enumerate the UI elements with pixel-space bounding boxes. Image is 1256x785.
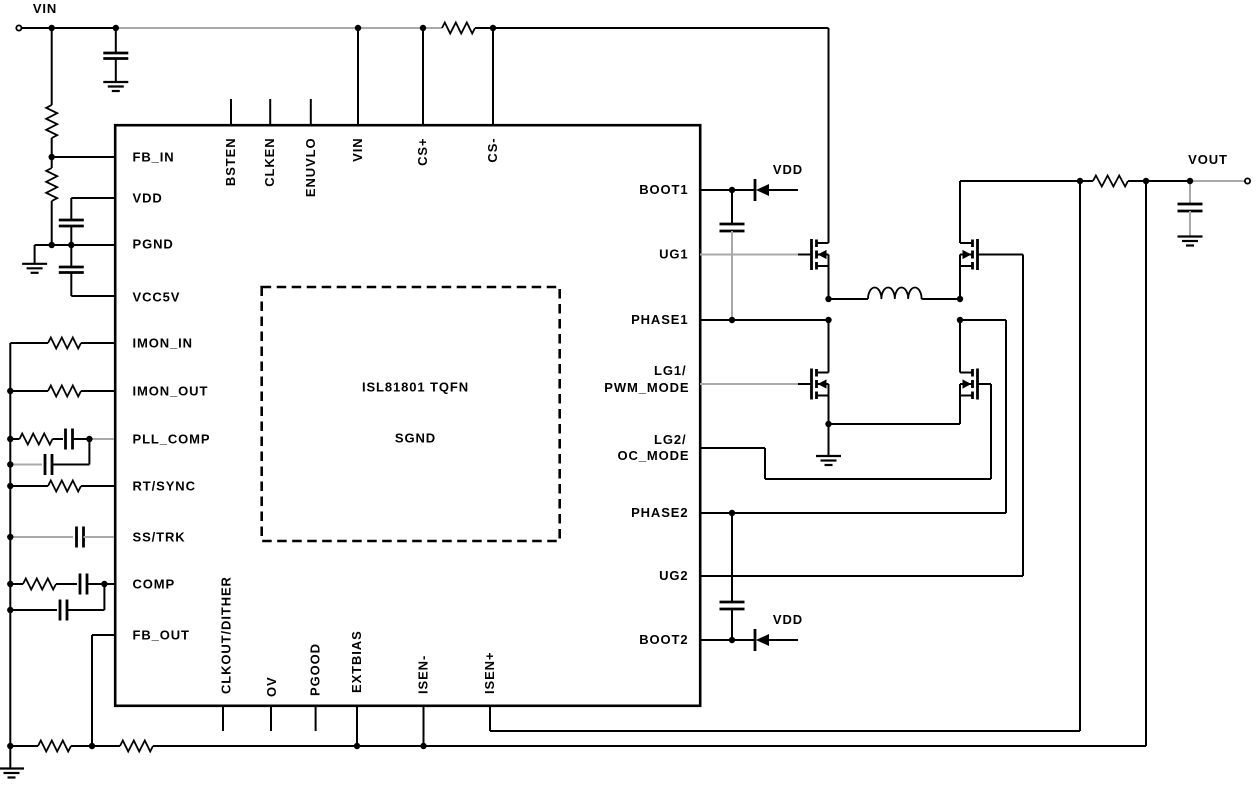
svg-text:ENUVLO: ENUVLO [303,138,318,198]
svg-text:BSTEN: BSTEN [223,138,238,187]
svg-text:PLL_COMP: PLL_COMP [133,432,211,447]
svg-text:VIN: VIN [350,138,365,162]
svg-text:PWM_MODE: PWM_MODE [604,380,689,395]
svg-text:VIN: VIN [33,1,57,16]
svg-text:BOOT1: BOOT1 [639,182,688,197]
svg-text:COMP: COMP [133,577,176,592]
svg-text:OV: OV [264,676,279,697]
svg-text:RT/SYNC: RT/SYNC [133,479,196,494]
svg-text:PGOOD: PGOOD [308,643,323,696]
svg-text:IMON_OUT: IMON_OUT [133,384,209,399]
svg-text:VDD: VDD [773,162,803,177]
svg-text:UG2: UG2 [659,568,688,583]
svg-text:PHASE2: PHASE2 [631,505,688,520]
svg-text:LG1/: LG1/ [654,363,687,378]
svg-text:OC_MODE: OC_MODE [617,448,689,463]
svg-text:ISL81801 TQFN: ISL81801 TQFN [362,380,469,395]
svg-text:BOOT2: BOOT2 [639,632,688,647]
svg-text:ISEN-: ISEN- [416,655,431,694]
svg-text:CLKEN: CLKEN [262,138,277,187]
svg-text:SGND: SGND [395,431,436,446]
svg-text:EXTBIAS: EXTBIAS [349,630,364,693]
svg-text:CS-: CS- [485,138,500,163]
svg-text:PHASE1: PHASE1 [631,312,688,327]
svg-text:VOUT: VOUT [1188,152,1228,167]
svg-text:CLKOUT/DITHER: CLKOUT/DITHER [219,576,234,694]
svg-text:VDD: VDD [773,612,803,627]
svg-text:SS/TRK: SS/TRK [133,530,186,545]
svg-text:CS+: CS+ [415,138,430,166]
svg-text:VDD: VDD [133,191,163,206]
svg-text:UG1: UG1 [659,247,688,262]
svg-text:VCC5V: VCC5V [133,290,181,305]
svg-text:FB_OUT: FB_OUT [133,628,190,643]
svg-text:LG2/: LG2/ [654,432,687,447]
svg-text:PGND: PGND [133,237,174,252]
svg-text:IMON_IN: IMON_IN [133,336,193,351]
svg-text:ISEN+: ISEN+ [482,652,497,694]
svg-text:FB_IN: FB_IN [133,150,175,165]
